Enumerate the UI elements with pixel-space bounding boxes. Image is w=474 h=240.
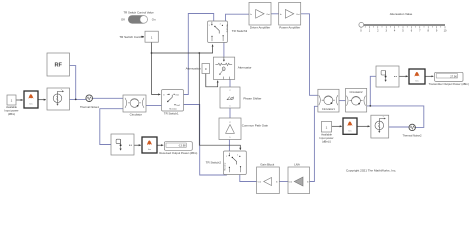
svg-text:Common Path Gain: Common Path Gain [242, 123, 269, 127]
svg-text:Attenuation: Attenuation [186, 66, 202, 70]
svg-text:2: 2 [230, 90, 231, 92]
svg-text:Gain Block: Gain Block [260, 162, 275, 166]
svg-text:Circulator2: Circulator2 [350, 90, 363, 94]
svg-text:Off: Off [121, 17, 125, 21]
svg-text:Thermal Noise1: Thermal Noise1 [80, 105, 99, 109]
svg-text:LNA: LNA [294, 162, 300, 166]
svg-text:Input power: Input power [4, 109, 18, 113]
svg-text:Available: Available [321, 133, 332, 137]
svg-text:27.96: 27.96 [450, 74, 457, 78]
svg-text:Received Output Power (dBm): Received Output Power (dBm) [159, 151, 197, 155]
svg-text:Microstrip: Microstrip [225, 25, 228, 33]
svg-text:Circulator1: Circulator1 [322, 107, 335, 111]
svg-text:RF: RF [54, 63, 62, 69]
svg-text:Power Amplifier: Power Amplifier [279, 26, 300, 30]
svg-text:fcn: fcn [148, 149, 151, 151]
svg-text:(dBm): (dBm) [8, 112, 15, 116]
svg-text:Available: Available [6, 105, 17, 109]
svg-text:fcn: fcn [349, 130, 352, 132]
svg-text:Out: Out [289, 181, 293, 184]
svg-text:TR Switch Control Value: TR Switch Control Value [123, 10, 154, 14]
svg-text:Transmitter Output Power (dBm): Transmitter Output Power (dBm) [429, 82, 469, 86]
svg-text:TR Switch3: TR Switch3 [232, 29, 248, 33]
svg-text:On: On [152, 17, 156, 21]
svg-text:Attenuator: Attenuator [238, 66, 252, 70]
svg-text:Copyright 2021 The MathWorks,: Copyright 2021 The MathWorks, Inc. [346, 168, 396, 172]
svg-text:Driver Amplifier: Driver Amplifier [250, 26, 270, 30]
svg-text:Input power: Input power [319, 136, 333, 140]
svg-text:fcn: fcn [416, 80, 419, 82]
svg-text:TR Switch Control: TR Switch Control [119, 35, 144, 39]
svg-text:Attenuation Value: Attenuation Value [390, 12, 413, 16]
svg-text:-13.98: -13.98 [178, 144, 186, 148]
svg-text:∠Ø: ∠Ø [226, 96, 234, 101]
svg-text:1: 1 [230, 106, 231, 108]
svg-text:Phase Shifter: Phase Shifter [243, 97, 261, 101]
svg-text:TR Switch2: TR Switch2 [206, 160, 222, 164]
svg-text:Microstrip: Microstrip [224, 163, 227, 171]
svg-text:fcn: fcn [30, 103, 33, 105]
svg-text:TR Switch1: TR Switch1 [164, 112, 179, 116]
svg-text:Thermal Noise2: Thermal Noise2 [403, 134, 422, 138]
svg-text:(dBm)1: (dBm)1 [322, 140, 331, 144]
svg-text:Circulator: Circulator [130, 112, 142, 116]
